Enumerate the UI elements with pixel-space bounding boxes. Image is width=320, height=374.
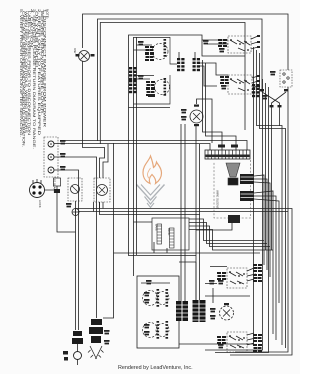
M1 wires <box>197 99 213 143</box>
right bus verticals group A <box>179 47 254 344</box>
wire labels right of TB1 <box>60 140 66 144</box>
M1 labels <box>181 109 187 113</box>
M1 left drops <box>181 124 185 303</box>
terminal comb TC1 <box>205 145 250 160</box>
SW2 left labels <box>220 76 229 84</box>
lower center connector stack 1 <box>176 301 188 321</box>
door switch DS1 <box>68 178 82 330</box>
wire TB1 neutral <box>54 157 97 318</box>
door lock stubs <box>33 179 54 190</box>
relay labels <box>155 224 158 231</box>
lower right wires <box>179 262 250 303</box>
bake broil relay box <box>152 218 189 250</box>
infinite switch SW4 <box>227 332 247 352</box>
surface box inner verticals <box>134 37 137 276</box>
mid bus line B5 <box>100 202 201 215</box>
infinite switch SW2 <box>228 75 252 94</box>
svg-text:BAKE: BAKE <box>155 224 158 231</box>
SU1 labels <box>138 41 144 45</box>
wire top loop second <box>98 19 263 141</box>
wire long drop x113 <box>103 143 114 318</box>
main bus line B2 <box>54 144 210 151</box>
connector stack left <box>129 67 137 80</box>
lower fan motor M2 <box>220 303 234 320</box>
power terminal block TB1 <box>44 137 58 177</box>
SU1 terminal strip <box>164 39 167 57</box>
surface unit SU2 <box>129 75 171 108</box>
wire lamp down to outlet <box>83 61 105 178</box>
mid bus line B3 <box>76 209 293 356</box>
notes text block (rotated) <box>19 9 49 149</box>
mid bus line B4 <box>79 202 289 212</box>
plug connector PC2 <box>240 191 279 340</box>
lower center connector stack 2 <box>193 300 206 322</box>
receptacle wire labels <box>270 71 276 75</box>
plug connector PC1 <box>240 174 270 277</box>
surface unit SU1 <box>152 37 177 64</box>
main bus line B1 <box>62 141 247 151</box>
convection fan motor M1 <box>190 105 203 127</box>
wire top loop outer <box>83 14 289 352</box>
svg-text:LOCK: LOCK <box>38 200 42 208</box>
wire bundle mid with staircase <box>189 219 273 250</box>
wire sleeve dashed boundary <box>214 160 251 218</box>
door column component <box>54 178 76 232</box>
ground stack A <box>63 331 83 365</box>
connector stack C2 <box>193 58 201 71</box>
right side pin stack <box>252 84 260 97</box>
wire outlet second feed <box>103 144 108 178</box>
door switch wire label <box>66 203 72 207</box>
SW2 exits <box>252 76 258 88</box>
ground stack B with chassis ground <box>88 319 110 359</box>
oven receptacle dashed <box>280 70 292 87</box>
svg-text:WIRE SLEEVE: WIRE SLEEVE <box>216 190 220 209</box>
relay wires <box>134 222 168 253</box>
wire TB1 L2 <box>54 170 79 330</box>
svg-text:40W: 40W <box>73 48 77 54</box>
lower connector stub <box>196 215 240 230</box>
surface box outline <box>129 35 246 110</box>
SU2 labels <box>138 75 144 79</box>
bake element SU5 <box>143 291 170 306</box>
oven light lamp <box>76 51 95 62</box>
wire top loop third <box>100 23 245 145</box>
lower oven top wire <box>141 282 170 284</box>
door lock label <box>38 200 42 208</box>
lower oven box <box>137 276 179 348</box>
stack wires <box>179 52 228 86</box>
broil element SU6 <box>143 323 170 338</box>
TB1 vertical label <box>53 179 57 193</box>
svg-text:BROIL: BROIL <box>167 228 170 236</box>
watermark LeadVenture V mark <box>137 185 165 208</box>
SW3 top wire <box>210 266 227 268</box>
watermark LeadVenture flame logo <box>143 156 162 184</box>
surface box left long <box>129 110 197 256</box>
SW1 exits <box>251 36 258 49</box>
SW1 entry wires <box>202 40 228 44</box>
crossover X <box>260 89 288 250</box>
comb feed stems <box>203 60 237 150</box>
SW4 exits <box>247 333 256 345</box>
harness funnel <box>226 163 240 185</box>
svg-text:Rendered by LeadVenture, Inc.: Rendered by LeadVenture, Inc. <box>118 365 193 371</box>
lamp label <box>73 48 77 54</box>
appliance outlet box <box>94 178 110 209</box>
infinite switch SW1 <box>228 36 251 53</box>
SU1 left wires <box>134 38 171 51</box>
door lock plug P4 <box>30 183 45 198</box>
connector stack C1 <box>177 58 185 71</box>
wire bundle lower <box>114 252 261 254</box>
infinite switch SW3 <box>227 268 247 288</box>
SW3 exits <box>247 268 256 281</box>
SW1 left labels <box>218 39 227 47</box>
SU2 terminal strip <box>164 78 167 96</box>
SW4 labels <box>217 336 226 344</box>
SW3 labels <box>217 272 226 280</box>
svg-text:5. VERIFY PROPER OPERATION AFT: 5. VERIFY PROPER OPERATION AFTER SERVICI… <box>19 9 23 137</box>
wire sleeve label <box>216 190 220 209</box>
